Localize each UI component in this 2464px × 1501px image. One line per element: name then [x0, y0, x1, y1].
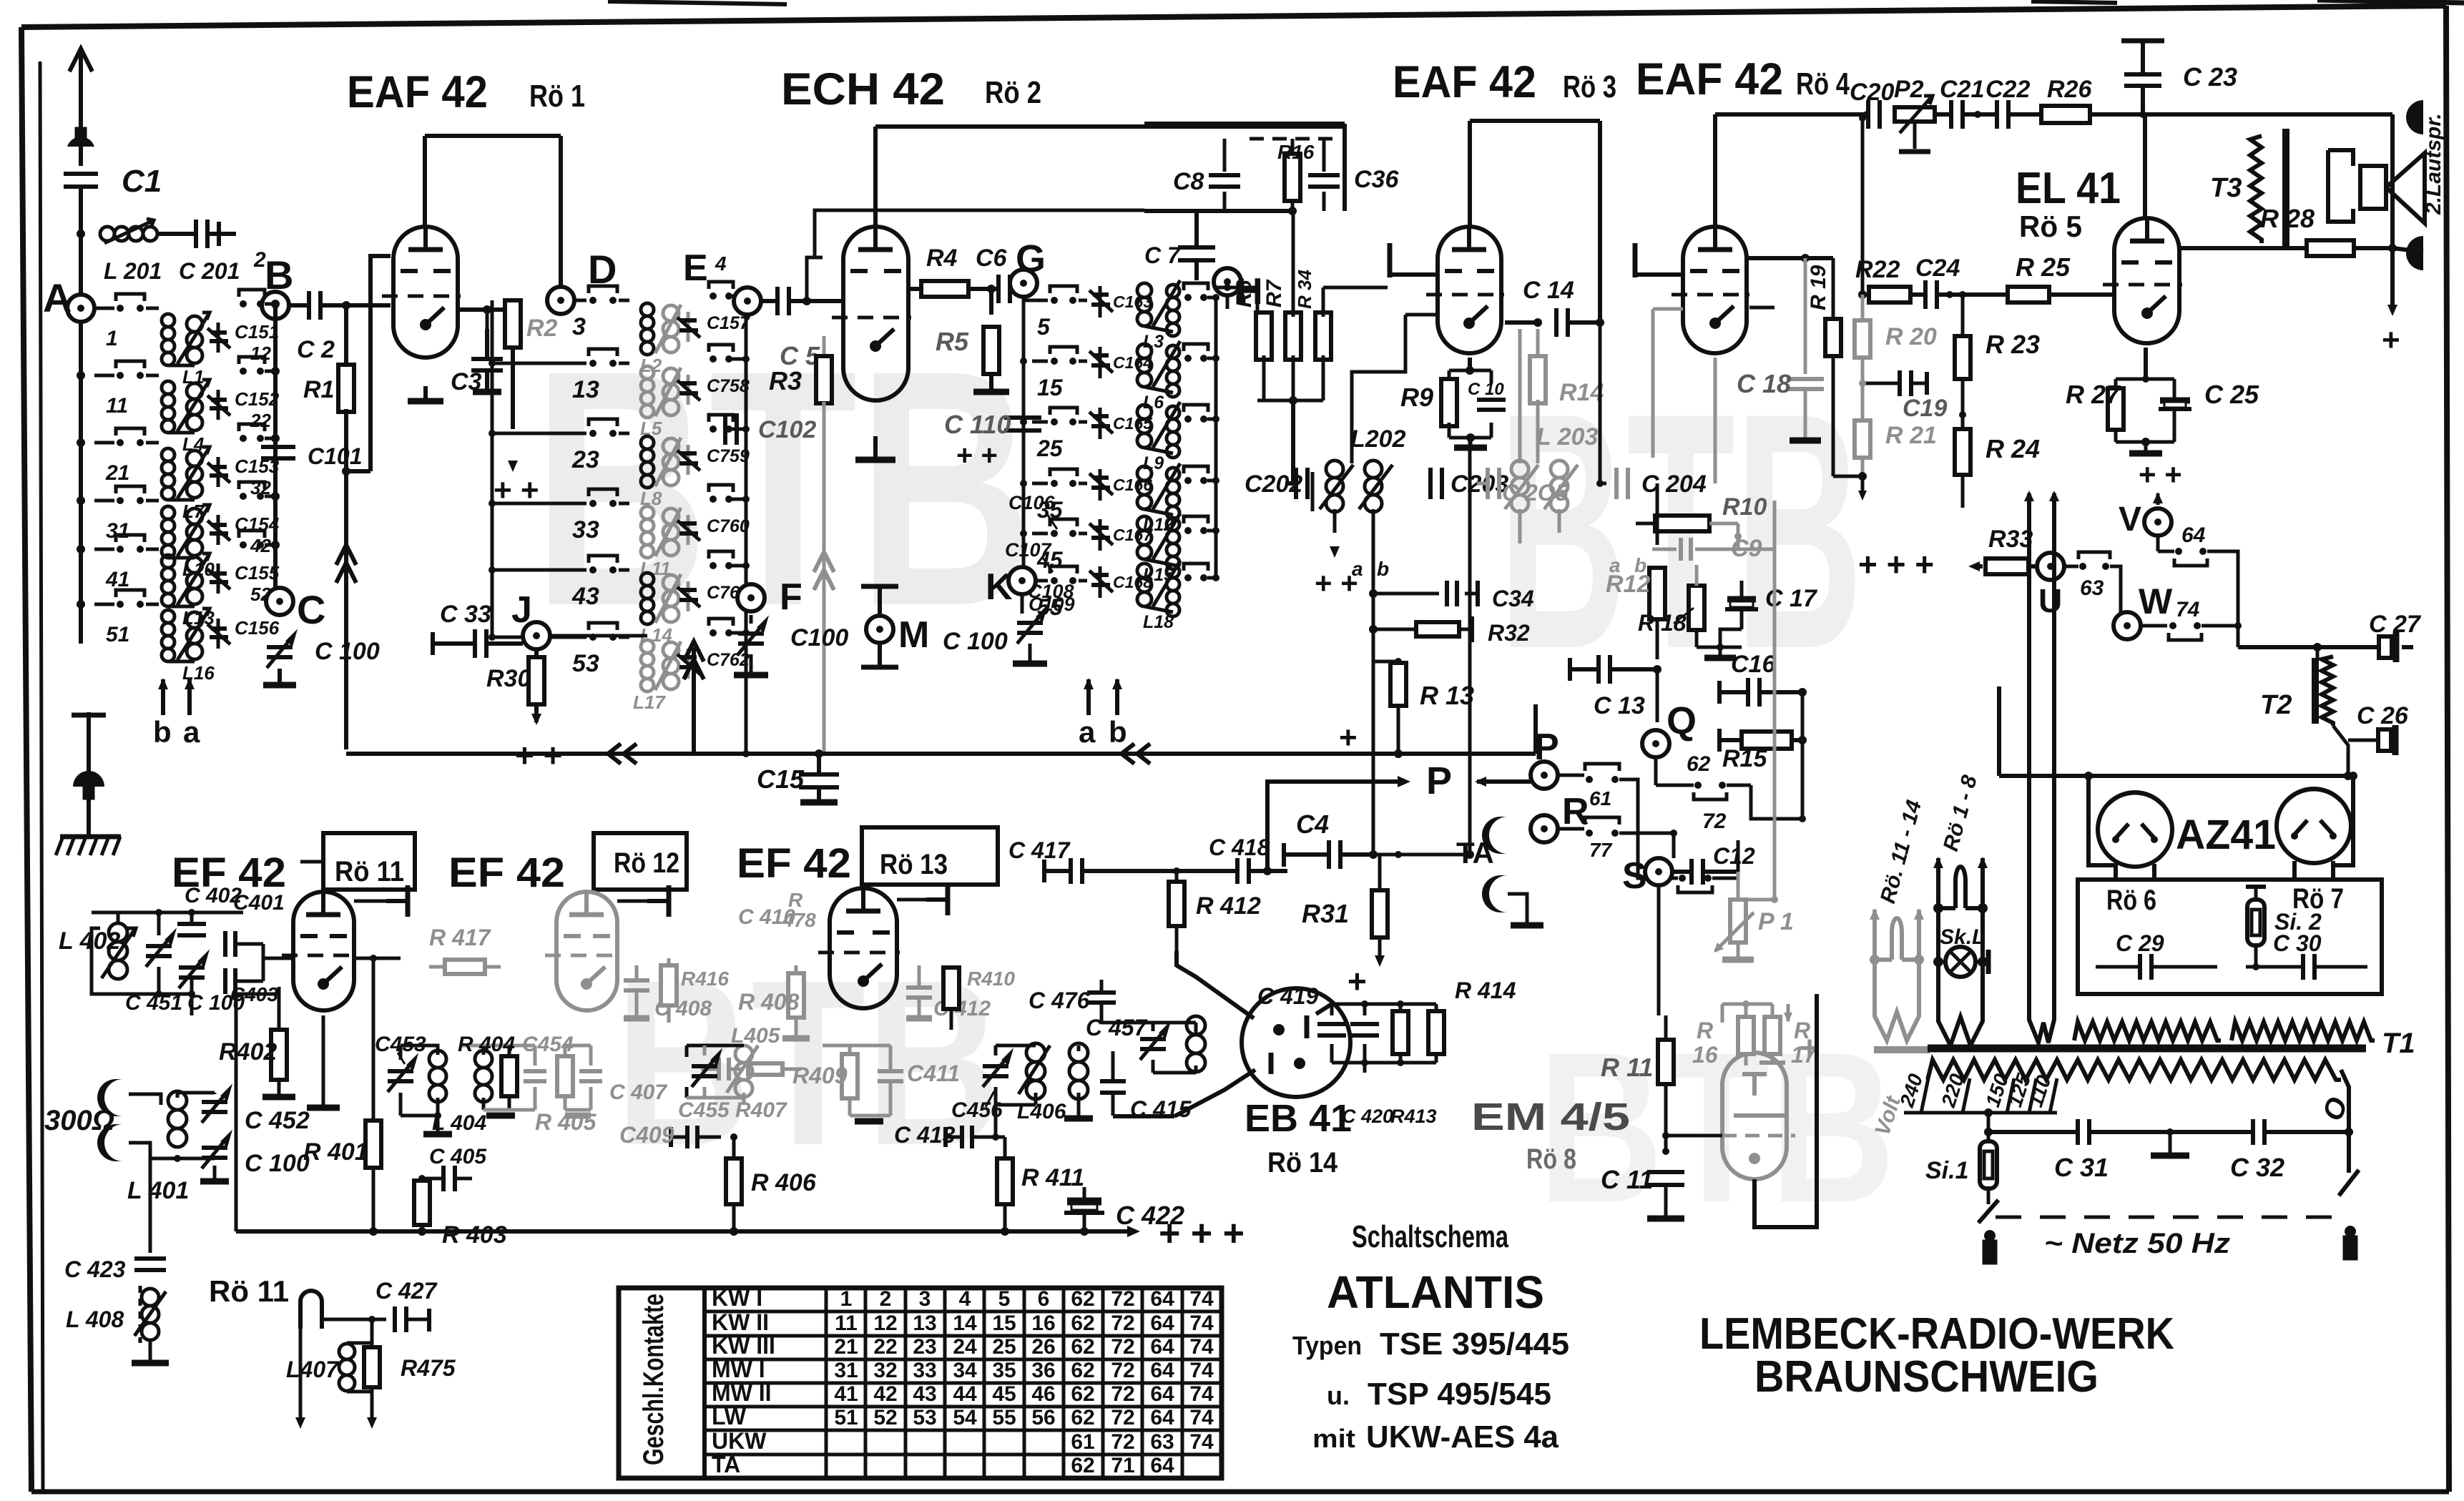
arrow P left [1477, 779, 1531, 784]
wire down to AZ [1997, 686, 2001, 776]
svg-text:L18: L18 [1143, 612, 1174, 632]
svg-text:R7: R7 [1262, 279, 1286, 307]
coil L408 [142, 1289, 159, 1306]
switch contact 35 [1032, 469, 1087, 523]
svg-text:C 452: C 452 [245, 1107, 310, 1134]
svg-text:63: 63 [2080, 576, 2104, 600]
svg-text:C 110: C 110 [944, 410, 1011, 439]
resistor R417 [445, 960, 485, 974]
svg-text:C152: C152 [235, 388, 280, 410]
tube Ro7 AZ41 [2277, 789, 2351, 863]
svg-text:TA: TA [712, 1452, 740, 1477]
svg-text:C168: C168 [1113, 573, 1152, 591]
resistor R412 [1175, 871, 1179, 881]
coil L4 [162, 380, 210, 455]
svg-text:R4: R4 [926, 245, 958, 272]
terminal K [1008, 567, 1036, 594]
svg-text:C 476: C 476 [1029, 988, 1090, 1013]
terminal F [737, 584, 765, 611]
svg-text:Rö 3: Rö 3 [1563, 69, 1616, 104]
terminal G [1010, 270, 1037, 297]
terminal C [266, 588, 293, 615]
svg-text:EAF 42: EAF 42 [1636, 54, 1783, 104]
svg-text:C 423: C 423 [64, 1256, 126, 1282]
tap 110 [2050, 1078, 2057, 1113]
switch contact 62 [1694, 782, 1702, 789]
capacitor C13 [1596, 655, 1601, 684]
switch contact right [1184, 283, 1219, 301]
wire R12 to Q [1656, 669, 1659, 722]
svg-text:R: R [1562, 791, 1589, 832]
tube Ro14 EB41 [1242, 988, 1350, 1097]
svg-text:72: 72 [1702, 809, 1727, 833]
svg-text:T2: T2 [2260, 690, 2292, 720]
decor [0, 0, 1, 1]
resistor R23 [1955, 336, 1970, 379]
svg-text:EAF 42: EAF 42 [1393, 57, 1536, 107]
terminal R [1531, 815, 1558, 842]
resistor R4 [908, 287, 921, 291]
svg-text:C 27: C 27 [2369, 611, 2422, 638]
switch contact right [1184, 516, 1219, 534]
svg-text:56: 56 [1031, 1406, 1055, 1429]
svg-text:P: P [1426, 759, 1452, 802]
wires C456 L406 [996, 1044, 1036, 1048]
svg-text:C 14: C 14 [1523, 277, 1574, 304]
switch contact upper [239, 531, 280, 549]
svg-text:74: 74 [1189, 1311, 1214, 1335]
svg-text:C151: C151 [235, 321, 279, 343]
svg-text:L 201: L 201 [104, 258, 162, 284]
resistor R26 [2041, 106, 2090, 123]
svg-text:C 420: C 420 [1342, 1106, 1393, 1127]
switch contact 25 [1032, 408, 1087, 461]
wire L401 down [177, 1158, 178, 1173]
capacitor C1 [64, 172, 98, 176]
trimmer C100 (452) [202, 1146, 227, 1150]
switch contact 45 [1032, 519, 1087, 573]
coil L12 [1137, 463, 1180, 535]
resistor R408 [788, 973, 804, 1018]
svg-text:LEMBECK-RADIO-WERK: LEMBECK-RADIO-WERK [1699, 1309, 2174, 1359]
capacitor C22 [1995, 100, 1999, 129]
svg-text:R31: R31 [1302, 899, 1349, 928]
resistor R16 (EM) [1738, 1017, 1754, 1054]
wires C457 [1153, 1021, 1196, 1025]
coil L405 sym [735, 1045, 752, 1063]
antenna [67, 49, 94, 166]
wire R401 top [354, 957, 401, 960]
wire plate loop top [873, 127, 878, 227]
capacitor C165 [1089, 408, 1153, 439]
grid bar Ro4 [1633, 243, 1638, 277]
wire S down [1657, 885, 1661, 1015]
svg-text:C455: C455 [678, 1098, 730, 1122]
tap 220 [1963, 1078, 1970, 1113]
svg-text:Rö 13: Rö 13 [880, 849, 948, 880]
tube Ro11 EF42 [293, 892, 354, 1010]
resistor R414 [1428, 1011, 1444, 1054]
svg-text:74: 74 [2176, 598, 2200, 621]
terminal J [523, 622, 550, 649]
svg-text:C 11: C 11 [1601, 1165, 1653, 1194]
svg-text:13: 13 [572, 376, 599, 403]
capacitor C11 [1647, 1170, 1684, 1174]
svg-text:64: 64 [1150, 1382, 1174, 1406]
svg-text:G: G [1016, 237, 1046, 280]
svg-text:KW III: KW III [712, 1333, 775, 1359]
svg-text:C164: C164 [1113, 353, 1152, 372]
svg-text:C102: C102 [758, 416, 816, 443]
svg-text:R 412: R 412 [1196, 892, 1261, 920]
vert arrow x1152 [823, 754, 825, 772]
arrow up x1152 [814, 552, 834, 572]
bottom trunk [236, 1229, 1130, 1234]
capacitor C33 [473, 629, 477, 658]
capacitor C417 [1069, 858, 1073, 884]
capacitor C7 [1178, 245, 1215, 250]
svg-text:41: 41 [105, 568, 129, 591]
capacitor C8 [1209, 173, 1240, 177]
wire grid return [346, 469, 370, 473]
wire fuse to switch [1987, 1189, 1991, 1204]
svg-text:a: a [183, 715, 200, 749]
svg-text:C 405: C 405 [429, 1145, 487, 1168]
wire to P arrow [1267, 782, 1400, 871]
svg-text:R1: R1 [303, 376, 334, 403]
svg-text:E: E [683, 247, 708, 289]
svg-text:AZ41: AZ41 [2176, 812, 2276, 858]
wire Ro4 cath [1714, 358, 1717, 483]
capacitor C9 [1679, 538, 1683, 561]
svg-text:C 31: C 31 [2054, 1153, 2109, 1182]
coil L17 [633, 640, 681, 713]
switch contact 15 [1032, 347, 1087, 400]
capacitor C405 [441, 1166, 446, 1191]
a b arrows (right) [1086, 679, 1091, 715]
capacitor C32 [2251, 1119, 2255, 1145]
resistor R401 [372, 1094, 376, 1121]
svg-text:Rö 14: Rö 14 [1267, 1147, 1338, 1178]
cathode ground [873, 436, 878, 458]
grid bar Ro13 [926, 897, 948, 902]
svg-text:55: 55 [992, 1406, 1016, 1429]
svg-text:F: F [780, 576, 802, 618]
svg-text:16: 16 [1692, 1042, 1718, 1068]
switch contact upper [709, 551, 750, 569]
capacitor C164 [1089, 347, 1152, 378]
tap 125 [2029, 1078, 2036, 1113]
svg-text:C21: C21 [1940, 76, 1984, 103]
capacitor C5 [775, 287, 780, 315]
svg-text:Schaltschema: Schaltschema [1352, 1219, 1508, 1254]
svg-text:R32: R32 [1488, 620, 1530, 646]
capacitor C30 [2301, 954, 2305, 980]
svg-text:74: 74 [1189, 1382, 1214, 1406]
svg-text:64: 64 [2181, 523, 2206, 547]
svg-text:62: 62 [1687, 752, 1711, 776]
svg-text:23: 23 [913, 1335, 936, 1359]
capacitor C168 [1089, 566, 1152, 598]
capacitor C12 [1689, 859, 1694, 885]
resistor R475 [364, 1347, 380, 1387]
switch contact right [1184, 466, 1219, 484]
wire R-bus to L202 [1291, 400, 1295, 483]
svg-text:R3: R3 [769, 366, 802, 395]
terminal H [1214, 268, 1241, 295]
svg-text:C 413: C 413 [894, 1122, 956, 1148]
wire into box [2088, 801, 2116, 865]
svg-text:R 417: R 417 [429, 925, 492, 950]
wire C14 down [1599, 323, 1602, 483]
resistor R478 sym [748, 1063, 782, 1075]
svg-text:P 1: P 1 [1758, 908, 1794, 935]
cathode Ro11 dn [322, 1015, 325, 1105]
grid bar Ro3 [1388, 243, 1393, 277]
AZ41 box [2078, 880, 2382, 994]
switch contact 23 [492, 419, 629, 473]
capacitor C202 [1294, 468, 1298, 499]
wire heater [322, 1318, 386, 1322]
svg-text:C 25: C 25 [2204, 380, 2259, 409]
coil L406 [1026, 1043, 1045, 1062]
capacitor C153 [207, 456, 280, 498]
resistor R402 [271, 1030, 287, 1080]
svg-text:13: 13 [913, 1311, 936, 1335]
coil L18 [1137, 561, 1180, 632]
capacitor C760 [677, 515, 750, 545]
capacitor C412 [906, 985, 932, 990]
wire az box [2114, 864, 2118, 880]
svg-text:R 411: R 411 [1021, 1164, 1084, 1191]
wire bus y1085 [1999, 774, 2348, 778]
svg-text:L16: L16 [182, 662, 215, 684]
plug left [1984, 1230, 1996, 1241]
svg-text:45: 45 [992, 1382, 1016, 1406]
svg-text:C 18: C 18 [1737, 369, 1791, 398]
svg-text:61: 61 [1589, 787, 1611, 809]
heater winding tall [2029, 493, 2054, 1043]
svg-text:21: 21 [834, 1335, 858, 1359]
coil L6 [1137, 341, 1180, 413]
svg-text:72: 72 [1111, 1406, 1134, 1429]
svg-text:b: b [1377, 558, 1389, 580]
wires C419 cluster [1332, 1003, 1436, 1006]
wire [157, 232, 187, 236]
svg-text:43: 43 [571, 583, 599, 610]
svg-text:44: 44 [953, 1382, 977, 1406]
trimmer C100 under F [738, 631, 764, 636]
svg-text:R 13: R 13 [1420, 681, 1474, 710]
terminal A [67, 295, 94, 322]
svg-text:12: 12 [250, 343, 271, 364]
svg-text:T1: T1 [2382, 1028, 2415, 1059]
coil L201 [100, 227, 114, 241]
svg-text:51: 51 [106, 623, 129, 646]
grid side box [370, 256, 391, 310]
capacitor C419 [1317, 1022, 1346, 1026]
trimmer C453 [388, 1069, 413, 1073]
svg-text:33: 33 [913, 1359, 936, 1382]
svg-text:K: K [986, 566, 1013, 608]
capacitor C427 [393, 1306, 397, 1332]
svg-text:R: R [1697, 1018, 1713, 1043]
switch contact 51 [77, 590, 159, 646]
resistor R5 [989, 289, 993, 315]
svg-text:71: 71 [1111, 1454, 1134, 1477]
svg-text:L 408: L 408 [66, 1306, 124, 1332]
capacitor C476 [1087, 990, 1116, 995]
svg-text:R475: R475 [401, 1355, 456, 1381]
svg-text:L202: L202 [1350, 425, 1406, 453]
svg-text:64: 64 [1150, 1454, 1174, 1477]
svg-text:15: 15 [992, 1311, 1016, 1335]
svg-text:R12: R12 [1606, 571, 1650, 598]
coil L2 [640, 303, 681, 376]
capacitor C415 [1100, 1079, 1126, 1083]
transformer T2 [2316, 647, 2320, 658]
svg-text:Rö 11: Rö 11 [335, 856, 404, 887]
svg-text:62: 62 [1071, 1335, 1094, 1359]
wire R to 77 [1558, 827, 1584, 831]
coil L16 [162, 609, 215, 684]
capacitor C166 [1089, 469, 1152, 501]
svg-text:R6: R6 [1232, 280, 1256, 307]
primary winding [1928, 1060, 2341, 1080]
wire O line [2347, 1105, 2351, 1132]
EB41 leads [1177, 965, 1254, 1018]
tap bus [1904, 1111, 2057, 1115]
resistor R31 [1373, 855, 1374, 888]
svg-text:C24: C24 [1915, 255, 1960, 282]
cathode to R9/C10 [1468, 358, 1472, 370]
svg-text:C 23: C 23 [2183, 62, 2237, 92]
svg-text:C762: C762 [707, 650, 750, 670]
svg-text:mit: mit [1312, 1424, 1355, 1453]
speaker top arc [2406, 100, 2423, 134]
jack input bottom [97, 1124, 123, 1161]
switch contact 13 [492, 349, 629, 403]
capacitor C163 [1089, 286, 1152, 318]
svg-text:24: 24 [953, 1335, 977, 1359]
svg-text:R10: R10 [1722, 493, 1767, 521]
terminal U [2037, 553, 2064, 580]
switch contact upper [709, 345, 750, 363]
svg-text:R5: R5 [936, 327, 969, 356]
speaker 2.Lautspr [2360, 166, 2386, 209]
svg-text:L3: L3 [1143, 332, 1164, 352]
capacitor C758 [677, 375, 750, 405]
trunk chevrons left [608, 744, 621, 764]
heater pin symbol [298, 1301, 303, 1329]
capacitor C761 [677, 581, 750, 611]
wire R13 [1398, 661, 1399, 706]
capacitor C156 [207, 617, 280, 649]
svg-text:C409: C409 [619, 1122, 674, 1148]
cathode EL41 [2144, 348, 2148, 379]
winding under box L [2074, 1022, 2221, 1040]
switch contact upper [709, 415, 750, 433]
switch contact right [1184, 344, 1219, 362]
capacitor C110 [1004, 415, 1041, 420]
svg-text:54: 54 [953, 1406, 977, 1429]
svg-text:C202: C202 [1245, 471, 1302, 498]
svg-text:5: 5 [998, 1287, 1011, 1311]
capacitor C155 [207, 562, 280, 605]
tube Ro4 EAF42 [1683, 227, 1747, 353]
svg-text:C 407: C 407 [609, 1081, 667, 1104]
terminal S [1645, 858, 1672, 885]
capacitor C151 [207, 321, 279, 364]
resistor R18 [1689, 586, 1704, 630]
svg-text:EF 42: EF 42 [737, 840, 851, 887]
trimmer C451 [146, 944, 172, 948]
resistor R11 [1659, 1015, 1666, 1016]
svg-text:C 204: C 204 [1641, 471, 1707, 498]
switch contact 53 [492, 623, 629, 677]
tube Ro13 EF42 [830, 888, 897, 1008]
svg-text:TSP 495/545: TSP 495/545 [1368, 1377, 1551, 1412]
svg-text:Rö 6: Rö 6 [2106, 885, 2156, 916]
svg-text:R 403: R 403 [442, 1221, 507, 1249]
switch contact right [1184, 564, 1219, 581]
switch contact 41 [77, 535, 159, 591]
svg-text:+ +: + + [2139, 458, 2182, 491]
coil L401 [129, 1091, 187, 1158]
svg-text:U: U [2038, 582, 2062, 619]
svg-text:R 414: R 414 [1455, 978, 1516, 1003]
tube Ro6 AZ41 [2098, 792, 2172, 867]
capacitor C409 [685, 1126, 689, 1148]
svg-text:C 419: C 419 [1257, 983, 1319, 1009]
svg-text:C36: C36 [1354, 166, 1399, 193]
capacitor C411 [878, 1069, 903, 1073]
svg-text:11: 11 [835, 1311, 858, 1335]
switch contact upper [239, 482, 280, 501]
svg-text:R33: R33 [1988, 526, 2033, 553]
resistor R21 [1855, 420, 1870, 458]
wires EM top [1722, 1003, 1772, 1006]
switch contact 43 [492, 556, 629, 610]
wire E column [745, 296, 748, 754]
svg-text:R409: R409 [792, 1063, 848, 1088]
fuse Si.1 [1980, 1141, 1997, 1189]
svg-text:+ +: + + [956, 440, 998, 471]
tube Ro5 EL41 [2114, 218, 2179, 343]
svg-text:Rö 2: Rö 2 [985, 75, 1041, 110]
wire T2 to C26 [2333, 726, 2348, 744]
capacitor C4 [1327, 840, 1331, 869]
coil L402 [92, 923, 136, 994]
jack input top [97, 1079, 123, 1116]
svg-text:62: 62 [1071, 1359, 1094, 1382]
svg-text:L 401: L 401 [127, 1177, 189, 1204]
svg-text:53: 53 [572, 650, 599, 677]
svg-text:R 20: R 20 [1885, 323, 1937, 350]
svg-text:64: 64 [1150, 1311, 1174, 1335]
terminal P [1531, 762, 1558, 789]
top filter box lines [1144, 124, 1345, 215]
resistor R1 [344, 305, 348, 368]
wire R28 line [2179, 246, 2307, 250]
plug right [2345, 1226, 2356, 1237]
switch contact 1 [94, 294, 159, 350]
capacitor C759 [677, 445, 750, 475]
wire Ro4 grid ext [1749, 306, 1775, 310]
table Geschl.Kontakte [619, 1285, 1222, 1478]
svg-text:53: 53 [913, 1406, 936, 1429]
box Ro12 [594, 833, 687, 890]
